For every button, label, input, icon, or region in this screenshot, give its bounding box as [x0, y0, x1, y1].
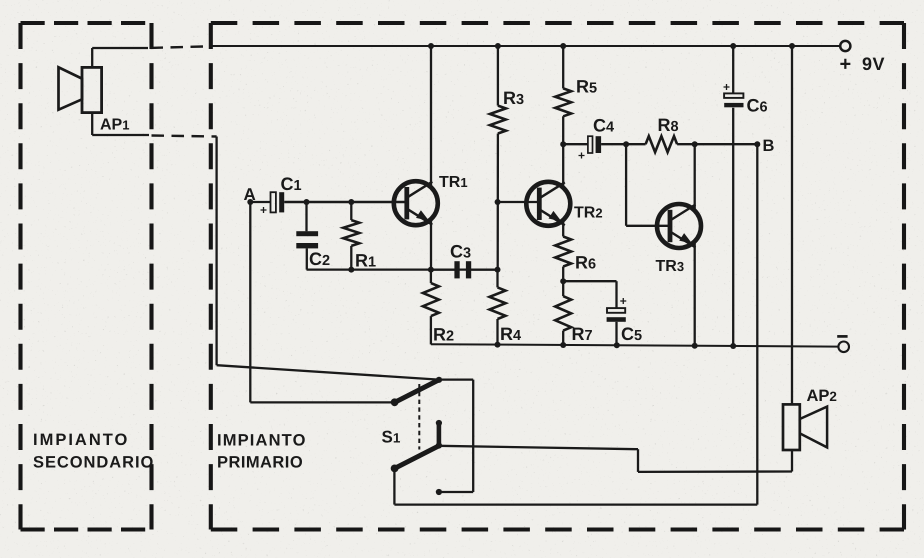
svg-text:IMPIANTO: IMPIANTO [33, 431, 129, 449]
svg-text:9V: 9V [862, 54, 885, 74]
svg-text:+: + [723, 80, 730, 94]
svg-text:+: + [620, 294, 627, 308]
svg-text:+: + [260, 203, 267, 217]
svg-text:B: B [763, 137, 775, 155]
svg-text:TR2: TR2 [574, 205, 603, 222]
svg-text:AP1: AP1 [100, 117, 129, 134]
svg-text:AP2: AP2 [807, 387, 837, 405]
svg-text:S1: S1 [382, 428, 401, 447]
svg-text:SECONDARIO: SECONDARIO [33, 454, 154, 472]
svg-text:A: A [244, 185, 256, 204]
svg-text:+: + [578, 149, 585, 163]
svg-text:TR1: TR1 [439, 174, 468, 191]
svg-text:PRIMARIO: PRIMARIO [217, 454, 303, 472]
svg-text:TR3: TR3 [656, 258, 685, 275]
svg-text:+: + [840, 54, 852, 76]
svg-text:IMPIANTO: IMPIANTO [217, 432, 307, 450]
